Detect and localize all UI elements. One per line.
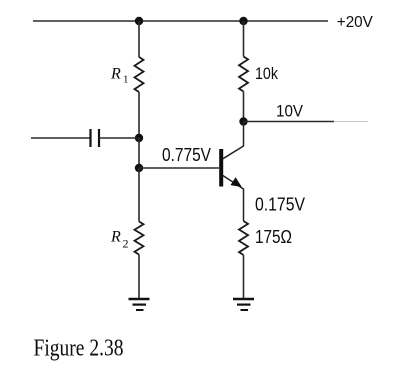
wire 10k top lead: [243, 21, 245, 57]
resistor R1: [135, 57, 144, 92]
wire R2 bottom lead: [138, 255, 140, 300]
svg-text:+20V: +20V: [337, 14, 373, 31]
svg-text:10V: 10V: [276, 102, 304, 121]
transistor Q1: [221, 122, 243, 222]
svg-text:2: 2: [123, 236, 129, 250]
node capacitor junction: [135, 134, 143, 142]
emitter arrowhead: [231, 177, 242, 187]
resistor R2: [135, 222, 144, 255]
ground left: [129, 299, 150, 310]
svg-text:1: 1: [123, 73, 129, 85]
svg-text:10k: 10k: [255, 64, 278, 83]
wire base: [139, 167, 219, 169]
svg-text:R: R: [110, 65, 121, 82]
ground right: [233, 299, 254, 310]
wire emitter resistor bottom lead: [243, 255, 245, 299]
emitter lead: [223, 176, 244, 222]
wire top +20V rail: [33, 20, 328, 22]
svg-text:R: R: [110, 229, 121, 246]
base bar: [219, 149, 223, 187]
node collector junction: [239, 117, 247, 125]
collector lead: [223, 122, 244, 159]
wire between junctions: [138, 138, 140, 168]
svg-text:Figure 2.38: Figure 2.38: [34, 335, 124, 361]
wire capacitor input lead: [31, 137, 90, 139]
wire R1 top lead: [138, 21, 140, 57]
node base junction: [135, 164, 143, 172]
svg-text:175Ω: 175Ω: [255, 227, 292, 247]
wire 10V faint trail: [334, 121, 368, 123]
wire 10V output: [244, 121, 335, 123]
wire R2 top lead: [138, 168, 140, 222]
svg-text:0.175V: 0.175V: [255, 195, 305, 215]
wire capacitor to junction: [99, 137, 139, 139]
wire R1 bottom lead: [138, 92, 140, 138]
svg-text:0.775V: 0.775V: [162, 145, 211, 165]
capacitor C1: [91, 129, 100, 147]
resistor 175ohm: [239, 221, 248, 255]
node junction top-right: [239, 17, 247, 25]
wire 10k bottom lead: [243, 92, 245, 122]
node junction top-left: [135, 17, 143, 25]
resistor 10k: [239, 57, 248, 92]
